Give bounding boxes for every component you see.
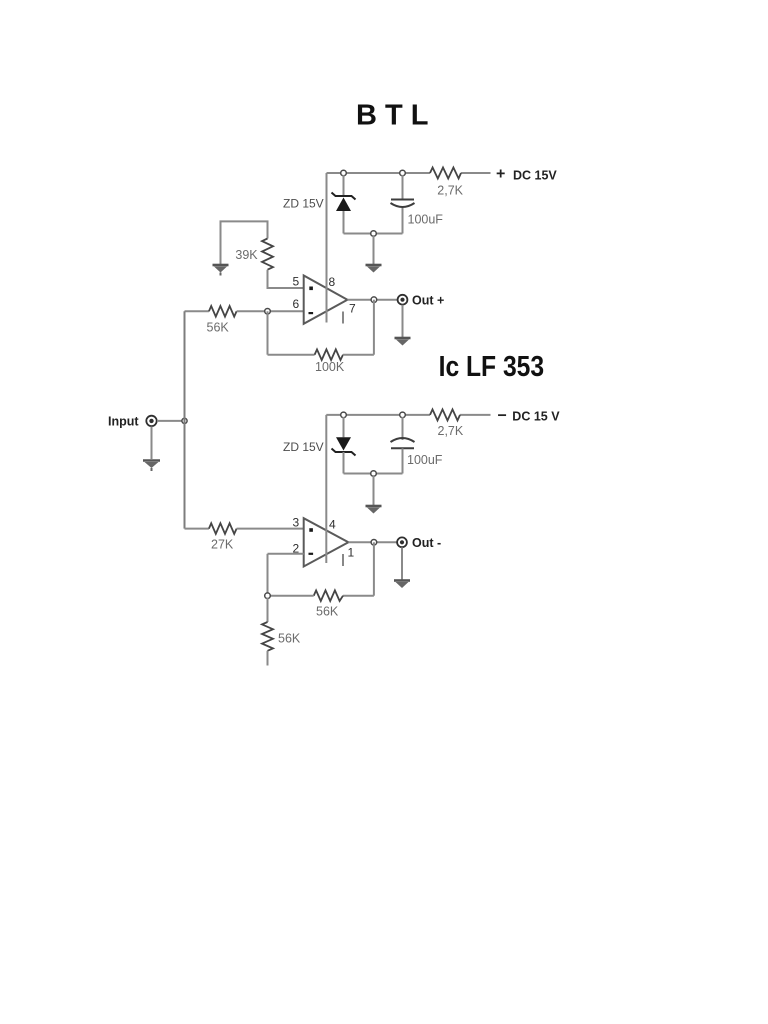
svg-text:100uF: 100uF — [408, 213, 444, 227]
svg-text:8: 8 — [329, 275, 336, 289]
resistor 56K (input 1) — [209, 306, 237, 317]
wire input to bus — [157, 420, 185, 422]
svg-text:2,7K: 2,7K — [437, 184, 463, 198]
ground (supply1 filter) — [366, 265, 382, 273]
wire junction2 horizontal — [344, 473, 403, 475]
svg-text:Out -: Out - — [412, 536, 441, 550]
zener diode ZD1 15V — [332, 193, 356, 200]
wire bus to 56K — [185, 310, 209, 312]
node rail2-cap — [400, 412, 406, 418]
wire pin4 vertical — [325, 415, 327, 563]
ground (out-) — [394, 581, 410, 589]
resistor 56K (to ground) — [262, 622, 273, 651]
resistor 2,7K (top) — [430, 168, 461, 179]
svg-text:7: 7 — [349, 302, 356, 316]
wire pin8 vertical — [326, 173, 328, 323]
svg-text:Out +: Out + — [412, 294, 444, 308]
node rail1-cap — [400, 170, 406, 176]
svg-text:DC 15V: DC 15V — [513, 169, 557, 183]
svg-text:Input: Input — [108, 415, 139, 429]
svg-text:+: + — [496, 166, 505, 183]
resistor 100K — [315, 349, 343, 360]
op-amp U1b — [304, 518, 349, 566]
wire zener2 top lead — [343, 417, 345, 437]
ground (out+) — [395, 338, 411, 346]
svg-text:56K: 56K — [207, 321, 230, 335]
wire feedback2 right vertical — [373, 542, 375, 595]
ground (input) — [143, 461, 160, 472]
svg-text:6: 6 — [293, 297, 300, 311]
connector Out + — [398, 295, 408, 305]
wire cap2 bottom lead — [402, 448, 404, 473]
svg-text:27K: 27K — [211, 538, 234, 552]
node rail2-zener — [341, 412, 347, 418]
wire 56K-gnd top lead — [267, 598, 269, 622]
wire feedback1 bottom right — [343, 354, 374, 356]
node input bus — [182, 418, 187, 423]
connector Input — [146, 416, 156, 426]
svg-text:DC 15 V: DC 15 V — [512, 410, 560, 424]
zener diode ZD2 15V — [336, 437, 351, 450]
wire pin2 horizontal — [268, 553, 304, 555]
wire junction1 to ground — [373, 236, 375, 264]
wire feedback1 right vertical — [373, 300, 375, 355]
wire 56K-gnd bottom stub — [267, 651, 269, 666]
wire feedback2 bottom right — [343, 595, 374, 597]
ground (39K bias) — [213, 265, 229, 276]
wire input to ground — [151, 427, 153, 460]
wire zener1 top lead — [343, 175, 345, 196]
node junction1 — [371, 231, 377, 237]
wire V- rail right segment — [460, 414, 491, 416]
svg-text:3: 3 — [293, 516, 300, 530]
node junction2 — [371, 471, 377, 477]
node output2 — [371, 540, 377, 546]
wire V+ rail right segment — [461, 172, 491, 174]
wire junction2 to ground — [373, 476, 375, 505]
svg-text:56K: 56K — [278, 632, 301, 646]
wire output2 — [348, 541, 397, 543]
svg-text:5: 5 — [293, 275, 300, 289]
wire feedback1 bottom left — [268, 354, 315, 356]
svg-text:ZD 15V: ZD 15V — [283, 197, 324, 211]
capacitor C2 100uF — [391, 438, 415, 442]
wire cap1 bottom lead — [402, 208, 404, 234]
ground (supply2 filter) — [366, 506, 382, 514]
resistor 2,7K (bottom) — [430, 409, 460, 420]
wire cap2 top lead — [402, 417, 404, 440]
node inverting input 2 — [265, 593, 271, 599]
wire V- rail left segment — [326, 414, 430, 416]
wire zener1 bottom lead — [343, 211, 345, 234]
svg-text:2,7K: 2,7K — [438, 424, 464, 438]
resistor 39K — [262, 239, 273, 270]
svg-text:ZD 15V: ZD 15V — [283, 440, 324, 454]
wire junction1 horizontal — [344, 233, 403, 235]
svg-text:−: − — [498, 408, 507, 425]
wire 39K bottom to pin5 — [268, 270, 304, 288]
resistor 27K — [209, 523, 237, 534]
svg-text:Ic LF 353: Ic LF 353 — [439, 351, 544, 383]
node output1 — [371, 297, 377, 303]
wire input bus vertical — [184, 311, 186, 528]
wire 39K top bend to ground — [221, 221, 268, 264]
wire feedback1 left vertical — [267, 311, 269, 354]
connector Out - — [397, 537, 407, 547]
wire V+ rail left segment — [327, 172, 431, 174]
node inverting input 1 — [265, 309, 271, 315]
wire pin2 vertical down — [267, 554, 269, 596]
wire cap1 top lead — [402, 175, 404, 200]
wire bus to 27K — [185, 528, 209, 530]
wire out- to ground — [401, 547, 403, 579]
svg-text:39K: 39K — [235, 248, 258, 262]
wire output1 — [347, 299, 397, 301]
capacitor C1 100uF — [391, 199, 414, 201]
wire out+ to ground — [402, 305, 404, 337]
wire feedback2 bottom left — [268, 595, 314, 597]
wire 56K to pin6 — [237, 310, 304, 312]
svg-text:4: 4 — [329, 518, 336, 532]
svg-text:56K: 56K — [316, 605, 339, 619]
svg-text:1: 1 — [348, 546, 355, 560]
svg-text:B T L: B T L — [356, 100, 429, 132]
svg-text:100K: 100K — [315, 360, 345, 374]
svg-text:100uF: 100uF — [407, 453, 443, 467]
wire 27K to pin3 — [237, 528, 304, 530]
resistor 56K (feedback 2) — [314, 590, 343, 601]
wire zener2 bottom lead — [343, 452, 345, 474]
op-amp U1a — [304, 276, 348, 324]
node rail1-zener — [341, 170, 347, 176]
